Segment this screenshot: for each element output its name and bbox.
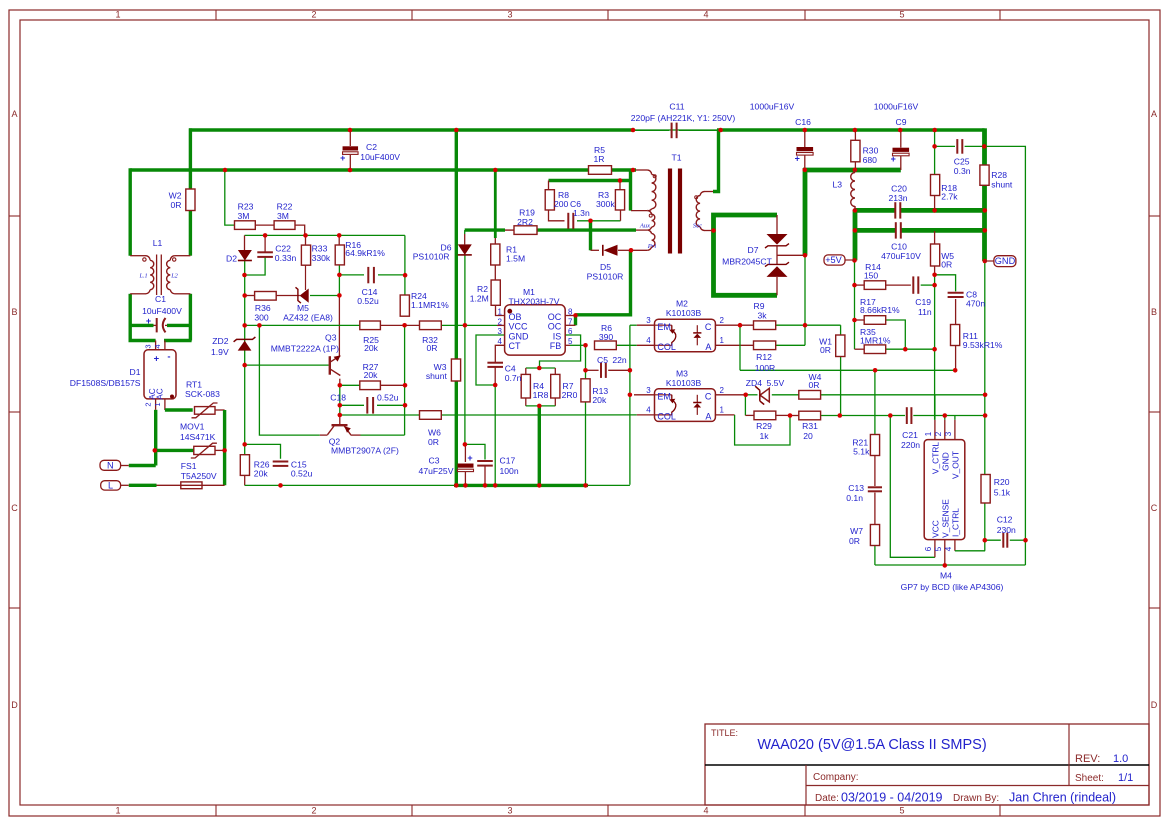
wire M1 OC pins to switch node: [574, 315, 577, 325]
junction 456.3,485.4: [454, 483, 459, 488]
svg-text:4: 4: [944, 546, 953, 551]
svg-text:shunt: shunt: [426, 371, 448, 381]
svg-text:VCC: VCC: [931, 520, 941, 538]
svg-text:20k: 20k: [254, 469, 269, 479]
wire D7 cathode tap y=255.3: [777, 254, 805, 256]
svg-text:1: 1: [720, 336, 725, 345]
svg-text:8: 8: [568, 308, 573, 317]
svg-text:230n: 230n: [997, 525, 1016, 535]
wire primary bottom rail y=230.1: [465, 228, 505, 231]
svg-text:DF1508S/DB157S: DF1508S/DB157S: [70, 378, 141, 388]
svg-text:2: 2: [311, 806, 316, 816]
svg-text:OC: OC: [548, 322, 562, 332]
junction 244.7,325.4: [242, 323, 247, 328]
junction 539.3,405.9: [537, 404, 542, 409]
wire M2 pin2 to R9: [715, 324, 753, 326]
junction 985.1,415.5: [983, 413, 988, 418]
wire R28 sense line: [985, 146, 1026, 565]
wire x=934.6 R18 chain: [934, 130, 936, 175]
wire second HV rail y=170: [130, 168, 588, 171]
title block: [705, 724, 1149, 805]
wire D1 pins bottom: [155, 399, 157, 410]
junction 265.1,235.4: [263, 233, 268, 238]
junction 620,180.5: [618, 178, 623, 183]
wire sec top feed x=718.5: [713, 130, 719, 192]
wire node line y=235.4 D2/C22/R33/R16: [245, 234, 405, 236]
capacitor C3 47uF25V: [458, 464, 474, 468]
junction 259.4,325.4: [257, 323, 262, 328]
wire C2 pins: [349, 130, 351, 146]
junction 244.7,444.4: [242, 442, 247, 447]
resistor R30: [851, 140, 860, 162]
svg-text:Pri: Pri: [647, 243, 657, 250]
svg-text:3: 3: [507, 806, 512, 816]
svg-text:OB: OB: [509, 312, 522, 322]
wire R1-R2 link: [494, 265, 496, 280]
junction 740,325.2: [738, 323, 743, 328]
wire bridge top rail left segment: [129, 339, 156, 342]
svg-text:1.2M: 1.2M: [470, 294, 489, 304]
capacitor C15 0.52u: [273, 461, 289, 463]
junction 456.3,130: [454, 128, 459, 133]
svg-text:1: 1: [115, 10, 120, 20]
optocoupler M3 led: [696, 395, 698, 403]
wire x=130 L1 lower to C1 rail: [128, 294, 131, 341]
resistor W4: [799, 391, 821, 400]
junction 854.9,210.4: [853, 208, 858, 213]
svg-text:V_OUT: V_OUT: [951, 451, 961, 479]
wire R31 out line y=415.5: [821, 415, 905, 417]
capacitor C21 220n: [906, 407, 908, 424]
wire C17 bottom pin: [484, 467, 486, 486]
wire ZD2 row y=365.1 to Q3 base: [245, 364, 329, 366]
svg-text:R12: R12: [756, 352, 772, 362]
wire D5 cathode vertical x=590.5: [589, 221, 592, 251]
svg-text:D2: D2: [226, 254, 237, 264]
wire Q3 emitter x=339.8: [339, 379, 341, 386]
resistor W6: [420, 411, 442, 420]
svg-text:9.53kR1%: 9.53kR1%: [963, 340, 1003, 350]
capacitor C12 230n: [1002, 533, 1004, 548]
svg-text:K10103B: K10103B: [666, 378, 702, 388]
svg-text:CT: CT: [509, 341, 521, 351]
svg-text:5.1k: 5.1k: [994, 488, 1011, 498]
IC M1 THX203H-7V: [505, 305, 566, 355]
junction 464.9,325.3: [463, 323, 468, 328]
wire D6 bottom VCC x=464.9: [464, 256, 466, 445]
svg-text:5: 5: [899, 806, 904, 816]
svg-text:0.52u: 0.52u: [357, 296, 379, 306]
wire R2 to M1 pin1: [496, 305, 505, 315]
wire x=890.3 VCC-M4 chain: [890, 416, 935, 558]
wire W2 top vertical x=190: [189, 128, 192, 189]
svg-text:0R: 0R: [171, 200, 182, 210]
svg-text:L1: L1: [153, 238, 163, 248]
wire R30 pins: [854, 130, 856, 140]
capacitor C9 1000uF: [893, 148, 910, 152]
junction 405.1,275.2: [403, 273, 408, 278]
svg-text:0R: 0R: [849, 536, 860, 546]
svg-text:R30: R30: [863, 145, 879, 155]
svg-text:2R2: 2R2: [517, 217, 533, 227]
svg-text:C16: C16: [795, 117, 811, 127]
svg-text:C3: C3: [429, 456, 440, 466]
capacitor C6 1.3n: [567, 213, 569, 229]
resistor R13: [581, 379, 590, 402]
wire RT1 row y=410: [165, 408, 193, 411]
wire M1 pin6 IS loop: [540, 335, 581, 368]
junction 631,250.3: [629, 248, 634, 253]
svg-text:C25: C25: [954, 157, 970, 167]
svg-text:D7: D7: [748, 245, 759, 255]
junction 1025.5,540.2: [1023, 538, 1028, 543]
svg-text:5.1k: 5.1k: [853, 447, 870, 457]
resistor R35: [864, 345, 886, 354]
junction 934.6,285.1: [932, 283, 937, 288]
wire GND vertical x=984.5: [982, 128, 987, 165]
wire +5V rail x=855: [853, 210, 858, 261]
IC M4 GP7: [924, 440, 965, 540]
svg-text:A: A: [705, 412, 711, 422]
resistor R18: [931, 175, 940, 196]
svg-text:C: C: [705, 322, 712, 332]
svg-text:150: 150: [864, 271, 879, 281]
wire R29 pins: [745, 414, 754, 416]
wire L1 pins: [130, 255, 145, 257]
wire AC input: N: [121, 465, 129, 467]
inductor L3: [851, 173, 855, 207]
junction 464.9,444.4: [463, 442, 468, 447]
wire T1 sec bottom pin: [705, 230, 714, 232]
resistor R22: [274, 221, 295, 230]
svg-text:10uF400V: 10uF400V: [360, 152, 400, 162]
junction 713.5,230.5: [711, 228, 716, 233]
capacitor C20 213n: [894, 202, 896, 218]
wire R22 out corner to node line: [295, 225, 305, 235]
resistor R1: [491, 244, 500, 265]
svg-text:Sheet:: Sheet:: [1075, 773, 1104, 784]
svg-text:V_SENSE: V_SENSE: [941, 499, 951, 538]
junction 539.3,485.4: [537, 483, 542, 488]
dual schottky D7 MBR2045CT upper: [767, 234, 788, 245]
svg-text:SCK-083: SCK-083: [185, 389, 220, 399]
wire C25 row y=146.4: [935, 145, 955, 147]
resistor R26: [240, 455, 249, 476]
resistor R6: [595, 341, 617, 350]
svg-text:2: 2: [498, 317, 503, 326]
svg-text:COL: COL: [657, 342, 676, 352]
resistor R36: [255, 292, 277, 301]
svg-text:AZ432 (EA8): AZ432 (EA8): [283, 313, 333, 323]
svg-text:C11: C11: [669, 102, 684, 112]
junction 745.7,394.8: [743, 393, 748, 398]
wire C4 bottom: [494, 368, 496, 386]
svg-text:MMBT2222A (1P): MMBT2222A (1P): [271, 343, 339, 353]
svg-text:C12: C12: [997, 515, 1013, 525]
resistor R7: [551, 374, 560, 398]
wire x=259.4 to Q2 collector: [259, 325, 319, 435]
wire M4 pin4 to I_CTRL: [954, 540, 956, 551]
wire x=404.6 vertical R25/R27/C18/Q2: [404, 325, 406, 435]
resistor R4: [521, 374, 530, 398]
wire output vertical x=805: [803, 168, 808, 255]
resistor R3: [615, 190, 624, 210]
resistor R17: [864, 316, 886, 325]
svg-text:W7: W7: [850, 526, 863, 536]
junction 890.3,415.5: [888, 413, 893, 418]
svg-text:MBR2045CT: MBR2045CT: [722, 257, 772, 267]
capacitor C4 0.7n: [487, 362, 503, 364]
svg-text:MOV1: MOV1: [180, 422, 205, 432]
svg-text:C9: C9: [896, 117, 907, 127]
junction 244.7,295.5: [242, 293, 247, 298]
wire M3 pin1 detour: [715, 414, 734, 416]
junction 944.8,415.5: [943, 413, 948, 418]
wire R23 feed x=225: [225, 170, 235, 225]
junction 854.9,230.4: [853, 228, 858, 233]
terminal L: [101, 481, 121, 490]
svg-text:RT1: RT1: [186, 380, 202, 390]
junction 854.5,285.1: [852, 283, 857, 288]
svg-text:B: B: [11, 307, 17, 317]
wire R16 bottom x=339.4: [338, 265, 340, 296]
resistor R28: [980, 165, 989, 185]
svg-text:0.33n: 0.33n: [275, 253, 297, 263]
svg-text:C: C: [705, 392, 712, 402]
svg-text:C21: C21: [902, 430, 918, 440]
junction 280.5,485.4: [278, 483, 283, 488]
bridge rectifier D1 DF1508S: [144, 350, 176, 399]
wire switch node vertical x=630.5: [629, 250, 632, 316]
wire ZD4 row y=394.8: [715, 394, 745, 396]
wire MOV row y=450.4: [155, 449, 194, 452]
svg-text:W2: W2: [169, 191, 182, 201]
wire aux clamp row y=220.8: [577, 220, 621, 222]
capacitor C11 220pF: [671, 123, 673, 139]
svg-text:IS: IS: [553, 331, 562, 341]
junction 984.8,261: [983, 259, 988, 264]
wire x=190 L1 lower to C1 rail: [189, 294, 192, 341]
resistor R20: [981, 475, 990, 504]
junction 854.9,130: [853, 128, 858, 133]
common-mode choke L1: [146, 256, 151, 261]
wire bridge top rail right segment: [164, 339, 192, 342]
svg-text:C5: C5: [597, 355, 608, 365]
resistor R19: [514, 226, 537, 235]
junction 629.9,370.3: [628, 368, 633, 373]
wire R4R7 top bar: [526, 367, 556, 369]
wire x=740 LED vertical: [739, 325, 741, 370]
junction 405,385.3: [403, 383, 408, 388]
wire R11 bottom: [955, 346, 957, 371]
wire C5 row y=370.3: [586, 369, 599, 371]
svg-text:THX203H-7V: THX203H-7V: [508, 297, 559, 307]
svg-text:Q3: Q3: [325, 333, 337, 343]
svg-text:0R: 0R: [809, 380, 820, 390]
capacitor C19 11n: [912, 276, 914, 293]
svg-text:shunt: shunt: [991, 180, 1013, 190]
svg-text:4: 4: [498, 337, 503, 346]
svg-text:2: 2: [311, 10, 316, 20]
svg-text:470n: 470n: [966, 299, 985, 309]
wire M4 pin stubs: [934, 395, 936, 420]
svg-text:0R: 0R: [428, 437, 439, 447]
svg-text:3: 3: [144, 344, 153, 348]
resistor R12: [754, 341, 776, 350]
wire R17 row y=320: [855, 319, 865, 321]
svg-text:100R: 100R: [755, 363, 776, 373]
svg-text:5: 5: [899, 10, 904, 20]
svg-text:D: D: [11, 700, 18, 710]
svg-text:R28: R28: [991, 170, 1007, 180]
resistor R25: [360, 321, 381, 330]
svg-text:0.7n: 0.7n: [505, 373, 522, 383]
svg-text:R20: R20: [994, 477, 1010, 487]
junction 585.5,370.3: [583, 368, 588, 373]
svg-text:3k: 3k: [757, 310, 767, 320]
junction 804.8,169.9: [803, 168, 808, 173]
capacitor C16 1000uF: [797, 147, 814, 151]
svg-text:M3: M3: [676, 368, 688, 378]
resistor R33: [301, 245, 310, 265]
svg-text:0.52u: 0.52u: [377, 393, 399, 403]
svg-text:3M: 3M: [277, 211, 289, 221]
svg-text:300k: 300k: [596, 199, 615, 209]
svg-text:2: 2: [144, 402, 153, 406]
svg-text:14S471K: 14S471K: [180, 432, 216, 442]
svg-text:5.5V: 5.5V: [767, 378, 785, 388]
transistor Q2 MMBT2907A: [332, 424, 348, 426]
svg-text:2: 2: [720, 316, 725, 325]
svg-text:+: +: [154, 354, 160, 365]
svg-text:M5: M5: [297, 303, 309, 313]
svg-text:C1: C1: [155, 294, 166, 304]
dual schottky D7 lower: [767, 266, 788, 277]
wire R13 bottom: [585, 402, 587, 486]
svg-text:64.9kR1%: 64.9kR1%: [345, 248, 385, 258]
junction 495.3,170: [493, 168, 498, 173]
junction 585.5,485.4: [583, 483, 588, 488]
capacitor C17 100n: [477, 460, 493, 462]
wire R33 top pin: [305, 235, 307, 245]
wire D6 top pin: [464, 230, 466, 234]
wire Q2 left pin: [320, 434, 328, 436]
zener ZD4 5.5V: [760, 388, 769, 402]
junction 984.8,210.4: [983, 208, 988, 213]
wire primary clamp rail y=180.5: [549, 179, 631, 182]
junction 905.3,349.2: [903, 347, 908, 352]
svg-text:COL: COL: [657, 412, 676, 422]
wire C11 pins: [633, 129, 669, 131]
wire W5 pins: [934, 231, 936, 244]
resistor W5: [931, 244, 940, 266]
thermistor RT1: [195, 407, 216, 415]
svg-text:GND: GND: [995, 256, 1016, 266]
wire R5 pins: [588, 169, 590, 171]
wire output rail y=230.4: [855, 228, 896, 233]
wire R35 row y=349.2: [855, 348, 865, 350]
junction 854.5,320: [852, 318, 857, 323]
svg-text:0R: 0R: [820, 345, 831, 355]
wire Q3 collector x=339.4: [338, 295, 340, 356]
wire R9 line to W1: [776, 324, 841, 326]
wire R27 row y=385.3: [340, 384, 360, 386]
wire M1 pin3 GND loop: [476, 335, 505, 385]
resistor W1: [836, 335, 845, 357]
svg-text:AC: AC: [156, 388, 165, 399]
junction 350,130: [348, 128, 353, 133]
junction 984.8,540.2: [983, 538, 988, 543]
wire R29 top feed x=745.4: [744, 395, 746, 416]
wire C16 pins: [804, 130, 806, 147]
svg-text:OC: OC: [548, 312, 562, 322]
junction 339.8,385.3: [338, 383, 343, 388]
svg-text:C13: C13: [848, 483, 864, 493]
wire R16 top pin: [338, 235, 340, 245]
wire IS sense to common rail x=539.3: [538, 406, 541, 486]
diode D2: [238, 250, 252, 261]
svg-text:11n: 11n: [918, 307, 932, 317]
svg-text:EM: EM: [657, 322, 671, 332]
capacitor C14 0.52u: [367, 267, 369, 283]
wire D7 anode loop: [714, 215, 778, 231]
junction 244.7,365.1: [242, 363, 247, 368]
svg-text:5: 5: [934, 546, 943, 551]
wire M4 pin5 to sense rail: [944, 540, 946, 566]
varistor MOV1: [194, 446, 215, 454]
resistor R11: [951, 325, 960, 346]
wire R22-R23 link: [255, 224, 274, 226]
svg-text:200: 200: [554, 199, 569, 209]
resistor W7: [870, 525, 879, 546]
wire control common rail y=485.4: [245, 484, 454, 486]
svg-text:20k: 20k: [592, 395, 607, 405]
wire x=190 W2 to L1: [189, 211, 192, 256]
wire D2 vertical x=244.7: [244, 235, 246, 250]
junction 339.8,405.3: [338, 403, 343, 408]
svg-text:330k: 330k: [312, 253, 331, 263]
junction 224.6,450.4: [222, 448, 227, 453]
svg-text:0R: 0R: [941, 259, 952, 269]
svg-text:+: +: [146, 316, 151, 326]
capacitor C2 10uF400V: [343, 146, 359, 150]
svg-text:A: A: [705, 342, 711, 352]
wire C22 top pin: [264, 235, 266, 252]
svg-text:2.7k: 2.7k: [941, 192, 958, 202]
wire L row y=485.3: [121, 484, 129, 486]
svg-text:T1: T1: [671, 153, 681, 163]
resistor R14: [864, 281, 886, 290]
junction 854.9,169.9: [853, 168, 858, 173]
resistor R29: [754, 411, 776, 420]
svg-text:R31: R31: [802, 421, 818, 431]
resistor R27: [360, 381, 381, 390]
wire D7 pins x=777: [776, 215, 778, 234]
svg-text:+: +: [891, 154, 896, 164]
svg-text:+: +: [340, 153, 345, 163]
svg-text:C17: C17: [500, 456, 516, 466]
junction 590.5,220.8: [588, 219, 593, 224]
svg-text:4: 4: [703, 10, 708, 20]
wire T1 aux bottom pin: [636, 229, 647, 231]
svg-text:1: 1: [720, 406, 725, 415]
svg-text:Company:: Company:: [813, 772, 859, 783]
junction 934.6,349.2: [932, 347, 937, 352]
svg-text:20: 20: [803, 431, 813, 441]
svg-text:47uF25V: 47uF25V: [419, 466, 454, 476]
svg-text:N: N: [107, 461, 114, 471]
zener ZD2 1.9V: [238, 341, 252, 351]
